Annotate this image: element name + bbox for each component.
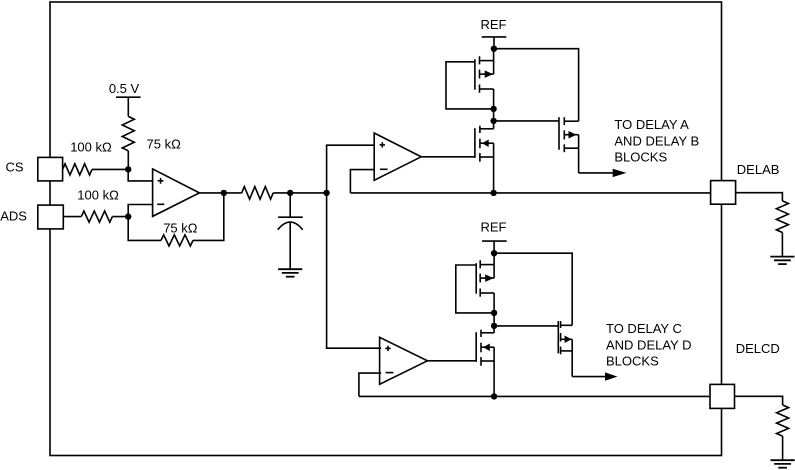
transistor Q3 drain lead xyxy=(564,120,578,122)
wire node IN- down to R4 xyxy=(128,217,161,241)
label REF (bottom) xyxy=(481,220,507,235)
wire U2 minus feedback xyxy=(350,170,374,193)
transistor Q3 channel xyxy=(563,117,565,152)
node A junction (IN+) xyxy=(125,166,131,172)
transistor Q3 bulk arrow xyxy=(564,131,578,139)
transistor Q1 source lead xyxy=(480,89,494,109)
transistor Q2 gate bar xyxy=(474,128,476,158)
wire Q3 source to delay A arrow xyxy=(579,172,613,174)
wire node E down to U3 plus xyxy=(327,193,382,348)
wire U3 output to Q5 gate xyxy=(427,360,476,362)
transistor Q1 drain lead xyxy=(480,49,494,74)
label TO DELAY A xyxy=(614,117,689,132)
ground (R7) xyxy=(771,460,795,468)
arrow to delay A blocks xyxy=(613,169,627,177)
transistor Q5 drain lead xyxy=(481,326,494,333)
node G junction xyxy=(490,106,496,112)
node C junction (U1 out) xyxy=(221,190,227,196)
node K junction xyxy=(491,310,497,316)
wire REF to node J xyxy=(493,241,495,253)
label DELCD xyxy=(736,341,780,356)
label AND DELAY B xyxy=(614,133,699,148)
transistor Q1 gate loop xyxy=(446,62,494,109)
transistor Q6 gate bar xyxy=(557,321,559,353)
label AND DELAY D xyxy=(606,337,692,352)
U1 minus sign xyxy=(157,203,164,205)
node L junction xyxy=(491,323,497,329)
label 100 kOhm (CS) xyxy=(70,140,112,155)
U2 plus sign xyxy=(380,142,385,147)
transistor Q4 channel xyxy=(479,260,481,297)
resistor R3 75k xyxy=(122,116,134,150)
label ADS xyxy=(0,208,27,223)
arrow to delay C blocks xyxy=(605,372,618,380)
transistor Q4 gate loop xyxy=(456,265,494,313)
op-amp U1 xyxy=(153,169,200,217)
net DELAB feedback line xyxy=(350,192,710,194)
net DELCD feedback line xyxy=(359,395,710,397)
comparator U2 xyxy=(374,133,421,180)
wire U1 output xyxy=(199,192,241,194)
label 0.5 V xyxy=(109,81,140,96)
svg-text:AND DELAY D: AND DELAY D xyxy=(606,337,692,352)
wire R6 to ground xyxy=(781,233,783,257)
wire R4 up to U1 output node xyxy=(193,193,224,241)
node I junction (fb top) xyxy=(490,190,496,196)
pad DELAB xyxy=(711,181,736,205)
label DELAB xyxy=(737,162,780,177)
transistor Q1 gate bar xyxy=(474,59,476,89)
transistor Q2 channel xyxy=(479,126,481,162)
U3 minus sign xyxy=(386,372,394,374)
node B junction (IN-) xyxy=(125,213,131,219)
node M junction (fb bottom) xyxy=(491,393,497,399)
pad CS xyxy=(38,157,63,181)
svg-text:AND DELAY B: AND DELAY B xyxy=(614,133,699,148)
transistor Q5 gate bar xyxy=(475,332,477,362)
U1 plus sign xyxy=(158,178,164,184)
label CS xyxy=(5,160,23,175)
transistor Q2 source lead xyxy=(480,143,494,193)
wire R5 to node D xyxy=(273,192,326,194)
pad ADS xyxy=(38,205,64,229)
wire DELCD pad to R7 xyxy=(735,396,783,405)
transistor Q2 bulk arrow xyxy=(480,139,494,147)
wire U2 output to Q2 gate xyxy=(421,156,475,158)
svg-text:ADS: ADS xyxy=(0,208,27,223)
wire node G to node H xyxy=(493,109,495,121)
resistor R7 load xyxy=(777,405,789,436)
label 75 kOhm (R3) xyxy=(147,137,182,152)
ground (R6) xyxy=(770,257,794,265)
resistor R4 75k feedback xyxy=(161,235,193,246)
node F junction (REF top) xyxy=(491,46,497,52)
transistor Q6 source lead xyxy=(561,339,573,376)
svg-text:0.5 V: 0.5 V xyxy=(109,81,140,96)
svg-text:75 kΩ: 75 kΩ xyxy=(147,137,182,152)
transistor Q6 drain lead xyxy=(561,324,573,326)
transistor Q5 source lead xyxy=(481,347,494,396)
wire DELAB pad to R6 xyxy=(736,193,783,201)
wire REF to node F xyxy=(493,37,495,49)
node J junction (REF bottom) xyxy=(491,250,497,256)
label BLOCKS (bottom) xyxy=(606,354,659,369)
wire node J to Q6 drain xyxy=(494,253,572,325)
transistor Q4 gate bar xyxy=(475,263,477,294)
svg-text:CS: CS xyxy=(5,160,23,175)
node E junction (split node) xyxy=(323,190,329,196)
node D junction (cap node) xyxy=(287,190,293,196)
resistor R5 series xyxy=(242,187,274,200)
supply bar 0.5V xyxy=(116,96,141,98)
wire node F to Q3 drain xyxy=(494,49,579,122)
U3 plus sign xyxy=(385,346,390,351)
transistor Q4 source lead xyxy=(480,293,494,313)
wire U3 minus feedback xyxy=(359,373,381,396)
wire C1 to ground xyxy=(289,222,291,269)
svg-text:REF: REF xyxy=(481,17,507,32)
transistor Q4 drain lead xyxy=(480,253,494,278)
resistor R1 100k (CS) xyxy=(63,164,92,175)
wire R1 to node IN+ xyxy=(92,168,128,170)
transistor Q2 drain lead xyxy=(480,121,494,129)
svg-text:DELAB: DELAB xyxy=(737,162,780,177)
wire Q6 source to delay C arrow xyxy=(572,376,605,378)
transistor Q5 channel xyxy=(480,330,482,366)
label 100 kOhm (ADS) xyxy=(77,188,119,203)
svg-text:DELCD: DELCD xyxy=(736,341,780,356)
wire node K to node L xyxy=(493,313,495,326)
comparator U3 xyxy=(380,337,428,384)
svg-text:TO DELAY A: TO DELAY A xyxy=(614,117,689,132)
svg-text:TO DELAY C: TO DELAY C xyxy=(606,321,682,336)
pad DELCD xyxy=(710,384,735,408)
svg-text:REF: REF xyxy=(481,220,507,235)
transistor Q6 bulk arrow xyxy=(561,336,573,344)
wire node L to Q6 gate xyxy=(494,325,558,327)
transistor Q6 channel xyxy=(560,321,562,354)
svg-text:100 kΩ: 100 kΩ xyxy=(77,188,119,203)
label BLOCKS (top) xyxy=(614,149,667,164)
transistor Q4 bulk arrow xyxy=(480,274,494,282)
capacitor C1 flat plate xyxy=(278,216,303,218)
label REF (top) xyxy=(481,17,507,32)
transistor Q5 bulk arrow xyxy=(481,343,494,351)
ground (C1) xyxy=(278,269,302,277)
wire node IN+ to U1 plus input xyxy=(128,169,152,181)
wire node IN- to U1 minus input xyxy=(128,205,152,217)
wire node H to Q3 gate xyxy=(494,120,559,122)
svg-text:BLOCKS: BLOCKS xyxy=(606,354,659,369)
resistor R6 load xyxy=(776,201,788,233)
label 75 kOhm (R4) xyxy=(163,220,198,235)
supply bar REF bottom xyxy=(482,240,507,242)
capacitor C1 curved plate xyxy=(278,222,303,230)
supply bar REF top xyxy=(482,36,507,38)
wire ADS pad to R2 xyxy=(63,216,81,218)
wire node E up to U2 plus xyxy=(327,145,375,193)
wire 0.5V to R3 xyxy=(127,97,129,116)
svg-text:BLOCKS: BLOCKS xyxy=(614,149,667,164)
transistor Q1 bulk arrow xyxy=(480,70,494,78)
U2 minus sign xyxy=(380,168,388,170)
wire R7 to ground xyxy=(782,436,784,460)
wire R2 to node IN- xyxy=(112,216,128,218)
transistor Q1 channel xyxy=(479,56,481,92)
wire R3 to node IN+ xyxy=(127,151,129,170)
node H junction xyxy=(490,118,496,124)
transistor Q3 gate bar xyxy=(558,117,560,150)
wire node D to C1 xyxy=(289,193,291,217)
svg-text:100 kΩ: 100 kΩ xyxy=(70,140,112,155)
transistor Q3 source lead xyxy=(564,135,578,173)
label TO DELAY C xyxy=(606,321,682,336)
svg-text:75 kΩ: 75 kΩ xyxy=(163,220,198,235)
resistor R2 100k (ADS) xyxy=(81,211,112,222)
